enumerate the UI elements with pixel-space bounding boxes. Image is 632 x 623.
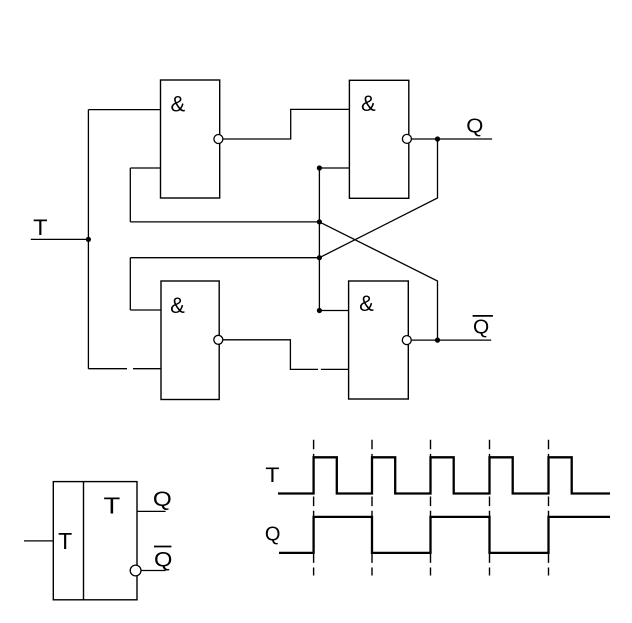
gate U1 output inversion bubble	[214, 135, 223, 144]
node dot center bus top	[317, 165, 322, 170]
wire mid-left vertical upper	[129, 168, 131, 222]
svg-text:Q: Q	[473, 317, 489, 339]
NAND gate U3 body (bottom-left)	[161, 281, 219, 400]
wire U4 output to Qbar	[412, 339, 492, 341]
wire U3 output step (left part)	[223, 340, 318, 370]
wire flip-flop Q output lead	[137, 510, 166, 512]
svg-text:T: T	[33, 215, 47, 240]
wire left vertical bus from T node	[87, 110, 89, 369]
wire flip-flop Qbar output lead	[141, 570, 166, 572]
wire U1 output to U2 top input	[223, 109, 349, 139]
wire U3 top input	[130, 309, 161, 311]
wire horizontal feedback row y=222	[130, 221, 319, 223]
svg-text:Q: Q	[466, 115, 483, 137]
wire Q feedback diagonal to row 258	[319, 139, 437, 258]
overbar of Qbar label	[473, 315, 493, 317]
wire U1 top input	[88, 109, 160, 111]
wire U4 top input	[319, 310, 348, 312]
svg-text:T: T	[58, 528, 72, 554]
gate U3 output inversion bubble	[214, 335, 223, 344]
wire center vertical bus	[318, 168, 320, 311]
wire U3 output to U4 bottom input (after hop gap)	[321, 368, 349, 370]
node T junction dot	[86, 237, 91, 242]
T flip-flop divider line	[83, 482, 85, 600]
svg-text:&: &	[170, 293, 185, 318]
overbar of flip-flop Qbar label	[154, 546, 171, 548]
timing waveform Q	[279, 517, 610, 553]
svg-text:Q: Q	[153, 488, 172, 511]
node dot center bus row 222	[317, 219, 322, 224]
wire to U3 bottom input (left part)	[88, 368, 127, 370]
wire Qbar feedback diagonal from row 222	[319, 222, 437, 340]
node dot center bus row 258	[317, 255, 322, 260]
wire horizontal feedback row y=257.7	[130, 257, 319, 259]
node Q junction dot	[435, 136, 440, 141]
wire U1 bottom input	[130, 167, 160, 169]
svg-text:T: T	[104, 493, 121, 519]
node dot center bus bottom	[317, 308, 322, 313]
T flip-flop symbol body	[53, 482, 137, 600]
timing grid dashed line 1	[313, 440, 315, 576]
timing grid dashed line 5	[548, 440, 550, 576]
node Qbar junction dot	[435, 338, 440, 343]
svg-text:Q: Q	[154, 549, 172, 572]
wire U2 output to Q	[412, 138, 492, 140]
timing grid dashed line 3	[430, 440, 432, 576]
wire flip-flop T input lead	[24, 540, 53, 542]
svg-text:Q: Q	[265, 523, 281, 545]
wire U2 bottom input	[319, 167, 349, 169]
NAND gate U4 body (bottom-right)	[349, 281, 409, 399]
timing waveform T	[278, 457, 610, 493]
gate U2 output inversion bubble	[402, 134, 411, 143]
timing grid dashed line 2	[371, 440, 373, 576]
NAND gate U1 body (top-left)	[161, 80, 220, 198]
flip-flop Qbar inversion bubble	[130, 565, 141, 576]
gate U4 output inversion bubble	[402, 336, 411, 345]
timing grid dashed line 4	[489, 440, 491, 576]
svg-text:&: &	[171, 92, 186, 117]
wire mid-left vertical lower	[129, 258, 131, 310]
NAND gate U2 body (top-right)	[349, 80, 408, 198]
svg-text:T: T	[265, 464, 279, 487]
svg-text:&: &	[359, 291, 374, 316]
wire to U3 bottom input (right part after hop gap)	[133, 368, 161, 370]
wire T input lead	[31, 238, 89, 240]
svg-text:&: &	[361, 91, 376, 116]
